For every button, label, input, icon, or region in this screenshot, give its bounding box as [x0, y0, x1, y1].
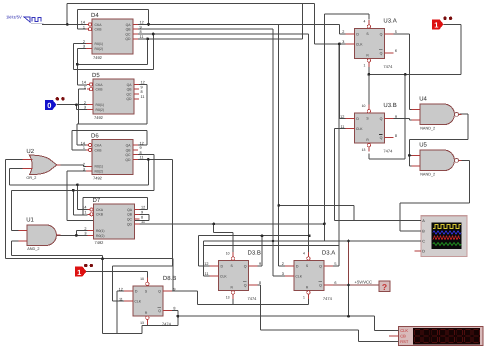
wire U2 output to D6 R0(1) — [60, 164, 83, 166]
flip-flop U3.B (7474) body — [340, 102, 397, 154]
junction VCC wire node — [347, 284, 350, 287]
svg-text:Q: Q — [380, 136, 383, 140]
svg-text:QA: QA — [126, 144, 132, 148]
svg-text:4: 4 — [364, 20, 366, 24]
svg-text:12: 12 — [340, 115, 344, 119]
svg-text:3: 3 — [83, 45, 85, 49]
svg-text:D: D — [135, 290, 138, 294]
junction U1 output branch — [75, 234, 78, 237]
svg-text:U3.B: U3.B — [383, 102, 396, 109]
wire into QB D7 — [137, 213, 149, 215]
svg-text:12: 12 — [140, 21, 144, 25]
wire set/reset rail — [369, 73, 461, 75]
wire QD D6 out — [137, 158, 172, 160]
svg-text:14: 14 — [82, 81, 86, 85]
svg-text:Q: Q — [380, 52, 383, 56]
svg-text:Q: Q — [380, 117, 383, 121]
svg-text:1: 1 — [77, 268, 81, 277]
wire D3.A R to reset run — [307, 299, 309, 305]
svg-text:6: 6 — [334, 281, 336, 285]
wire U3.B Q to U4 input B — [384, 118, 409, 120]
wire probe 0 to D5 R0 pins — [57, 104, 87, 106]
svg-text:CLK: CLK — [220, 274, 227, 278]
wire probe 1 top feed — [444, 23, 461, 25]
svg-text:CLK: CLK — [356, 42, 363, 46]
svg-text:Q: Q — [244, 284, 247, 288]
junction bottom rail VCC branch — [347, 315, 350, 318]
svg-text:D3.B: D3.B — [248, 250, 261, 257]
svg-text:QB: QB — [127, 213, 133, 217]
svg-text:3: 3 — [84, 106, 86, 110]
NAND gate U4 — [412, 96, 462, 131]
svg-text:11: 11 — [205, 272, 209, 276]
svg-text:QA: QA — [126, 23, 132, 27]
svg-text:R0(2): R0(2) — [96, 108, 104, 112]
svg-text:Q: Q — [319, 264, 322, 268]
wire QD D7 run — [137, 223, 325, 225]
svg-text:QA: QA — [127, 83, 133, 87]
svg-text:1: 1 — [84, 211, 86, 215]
wire VCC branch from Qbar rail — [348, 241, 350, 285]
svg-text:14: 14 — [81, 141, 85, 145]
svg-text:14: 14 — [82, 206, 86, 210]
wire into D8.B CLK — [112, 300, 124, 302]
svg-text:Q: Q — [158, 290, 161, 294]
wire QC D6 drop — [153, 155, 155, 191]
wire QA D4 drop to U3.A D — [339, 24, 341, 34]
svg-text:QB: QB — [126, 28, 132, 32]
svg-text:11: 11 — [140, 156, 144, 160]
svg-text:7492: 7492 — [93, 55, 103, 60]
wire into U3.A CLK — [314, 43, 345, 45]
svg-text:CKA: CKA — [96, 83, 104, 87]
wire top clock rail — [67, 2, 314, 4]
wire rail down to U3.B S — [368, 74, 370, 107]
svg-text:8: 8 — [140, 151, 142, 155]
junction U5 tied inputs — [408, 154, 411, 157]
svg-text:7474: 7474 — [162, 321, 172, 326]
VCC box — [379, 281, 390, 292]
flip-flop D8.B (7474) body — [119, 275, 177, 327]
wire U3.B R loop — [368, 154, 370, 159]
svg-text:9: 9 — [140, 25, 142, 29]
svg-text:NAND_2: NAND_2 — [420, 126, 435, 130]
svg-text:QB: QB — [127, 88, 133, 92]
svg-text:QC: QC — [125, 32, 131, 36]
wire U5 output to scope B — [460, 160, 470, 162]
wire QA D4 loop riser — [148, 9, 150, 24]
svg-text:?: ? — [382, 282, 387, 292]
svg-text:Q: Q — [158, 309, 161, 313]
wire net line y236 — [199, 235, 310, 237]
svg-text:CKB: CKB — [95, 148, 103, 152]
svg-text:CKB: CKB — [96, 213, 104, 217]
wire long run to U1 top input — [12, 189, 155, 191]
svg-text:D4: D4 — [91, 12, 99, 19]
svg-text:QC: QC — [127, 218, 133, 222]
counter D6 (7492) body — [81, 133, 144, 181]
wire into D3.A D — [279, 265, 285, 267]
svg-text:CLK: CLK — [400, 328, 408, 333]
svg-text:+5V/VCC: +5V/VCC — [355, 279, 373, 284]
wire R0(1) D4 stub link — [73, 43, 86, 45]
wire QA D4 drop to D3.A D input — [278, 24, 280, 266]
svg-text:R0(1): R0(1) — [95, 165, 103, 169]
NAND gate U5 — [412, 142, 462, 177]
svg-text:R0(2): R0(2) — [95, 170, 103, 174]
svg-text:3: 3 — [342, 40, 344, 44]
junction QD D7 to S-net vertical — [323, 223, 326, 226]
wire D7 CKB riser — [73, 214, 87, 216]
wire into D5 CKA — [77, 84, 87, 86]
svg-text:A: A — [422, 219, 425, 223]
svg-text:7492: 7492 — [95, 240, 105, 245]
wire Q D3.A to D3.B CLK link line — [204, 245, 340, 247]
wire QA D5 loop across — [77, 123, 147, 125]
wire QA D6 out — [137, 144, 147, 146]
svg-text:2: 2 — [282, 262, 284, 266]
svg-text:0: 0 — [47, 101, 51, 110]
svg-text:1: 1 — [303, 296, 305, 300]
junction D3.B Q riser — [261, 234, 264, 237]
wire U3.A S preset loop — [368, 14, 370, 19]
wire into CKB D4 — [78, 28, 87, 30]
svg-text:8: 8 — [141, 90, 143, 94]
junction clock node — [66, 23, 69, 26]
wire drop to D6 CKB — [71, 131, 73, 150]
counter D7 (7492) body — [82, 197, 145, 245]
svg-text:4: 4 — [303, 252, 305, 256]
wire QC D4 run — [138, 33, 309, 35]
junction scope C node — [347, 240, 350, 243]
svg-text:7492: 7492 — [94, 115, 104, 120]
junction QD D4 — [146, 37, 149, 40]
junction QA D4 loop — [147, 23, 150, 26]
wire QA D5 out — [138, 83, 147, 85]
svg-text:CKB: CKB — [96, 88, 104, 92]
wire QA D7 loop — [137, 209, 148, 211]
svg-text:D: D — [356, 117, 359, 121]
svg-text:D: D — [356, 32, 359, 36]
svg-text:9: 9 — [395, 115, 397, 119]
svg-text:9: 9 — [141, 85, 143, 89]
svg-text:9: 9 — [140, 146, 142, 150]
svg-text:11: 11 — [340, 125, 344, 129]
svg-text:U1: U1 — [26, 216, 34, 223]
wire QA loop drop to CKB D4 — [77, 9, 79, 29]
svg-text:D7: D7 — [93, 197, 101, 204]
wire drop to D3.B D input — [198, 236, 200, 266]
wire QC D4 feedback drop — [152, 34, 154, 69]
wire scope A branch — [279, 204, 354, 206]
svg-text:CLK: CLK — [356, 127, 363, 131]
svg-text:10: 10 — [362, 104, 366, 108]
display U6 logic indicator — [389, 327, 483, 346]
AND gate U1 — [19, 216, 61, 251]
svg-text:1: 1 — [434, 21, 438, 30]
svg-text:11: 11 — [141, 95, 145, 99]
wire U4 output loop to U5 inputs — [460, 113, 469, 115]
wire scope A drop — [353, 205, 355, 220]
wire QB D4 run — [138, 28, 274, 30]
svg-text:3: 3 — [84, 232, 86, 236]
svg-text:CLK: CLK — [134, 300, 141, 304]
svg-text:R0(1): R0(1) — [96, 229, 104, 233]
svg-text:NAND_2: NAND_2 — [420, 172, 435, 176]
wire D8.B Qbar riser — [177, 310, 179, 325]
svg-text:11: 11 — [119, 297, 123, 301]
svg-text:QD: QD — [125, 37, 131, 41]
svg-text:Q: Q — [380, 32, 383, 36]
svg-text:12: 12 — [204, 262, 208, 266]
svg-text:13: 13 — [362, 148, 366, 152]
wire D8.B R stub link — [146, 322, 148, 326]
svg-text:D5: D5 — [92, 72, 100, 79]
svg-text:2: 2 — [84, 227, 86, 231]
wire QD D6 branch drop — [147, 159, 149, 184]
svg-text:2: 2 — [83, 40, 85, 44]
svg-text:CKA: CKA — [96, 208, 104, 212]
wire QA loop top — [78, 8, 149, 10]
wire to D8.B Q — [196, 291, 198, 304]
wire U1 bottom input run — [12, 254, 103, 256]
wire D3.B Q riser to S/QC line — [249, 265, 263, 267]
wire U1 output to D7 R0 pins — [57, 234, 88, 236]
junction S D3.B jog — [212, 223, 215, 226]
wire D3.B Qbar to display RST — [249, 284, 261, 286]
wire branch to D7 CKA — [76, 185, 78, 210]
svg-text:U3.A: U3.A — [383, 18, 396, 25]
wire drop to D8.B feedback loop — [102, 255, 104, 333]
svg-text:D: D — [422, 249, 425, 253]
svg-text:CKA: CKA — [95, 23, 103, 27]
wire scope A into channel — [354, 219, 421, 221]
svg-text:R0(1): R0(1) — [96, 103, 104, 107]
wire scope C feed — [349, 240, 422, 242]
svg-text:12: 12 — [141, 206, 145, 210]
wire riser to D3.B R — [232, 296, 234, 305]
wire clock output to D4 CKA — [42, 23, 86, 25]
junction probe 0 node — [75, 103, 78, 106]
clock source V1 1kHz/5V — [6, 15, 44, 24]
svg-text:CKB: CKB — [95, 28, 103, 32]
svg-text:U5: U5 — [419, 142, 427, 149]
wire QA D5 loop down — [146, 84, 148, 123]
wire clock net drop to U3.B D — [338, 44, 340, 119]
wire U3.A Q to U4 input A — [384, 33, 409, 35]
svg-text:Q: Q — [319, 284, 322, 288]
junction scope A tap — [277, 204, 280, 207]
svg-text:CB: CB — [400, 334, 406, 339]
svg-text:7474: 7474 — [248, 296, 258, 301]
svg-text:QC: QC — [126, 92, 132, 96]
svg-text:2: 2 — [84, 101, 86, 105]
wire QD D4 riser to top rail — [301, 3, 303, 38]
svg-text:11: 11 — [140, 35, 144, 39]
wire drop to D3.B CLK — [203, 241, 205, 276]
svg-text:10: 10 — [140, 277, 144, 281]
indicator probe 0 — [45, 97, 65, 110]
svg-text:B: B — [422, 229, 425, 233]
svg-text:U2: U2 — [26, 148, 34, 155]
wire drop to D6 CKA — [76, 124, 78, 145]
junction Qbar D8.B loop — [101, 257, 104, 260]
svg-text:Q: Q — [244, 264, 247, 268]
junction D7 CKB riser — [72, 189, 75, 192]
junction set/reset rail to U3.B R — [404, 73, 407, 76]
svg-text:2: 2 — [83, 163, 85, 167]
svg-text:9: 9 — [173, 287, 175, 291]
svg-text:D: D — [296, 264, 299, 268]
svg-text:10: 10 — [226, 252, 230, 256]
svg-text:9: 9 — [141, 211, 143, 215]
counter D5 (7492) body — [82, 72, 145, 120]
wire top rail drop to U3.A CLK — [313, 3, 315, 44]
svg-text:3: 3 — [282, 272, 284, 276]
junction S D3.A node — [308, 234, 311, 237]
svg-text:D: D — [221, 264, 224, 268]
wire QC D6 out — [137, 154, 154, 156]
wire probe 1 to D8.B S — [86, 271, 147, 273]
wire QD D4 run — [138, 38, 303, 40]
wire QA D6 loop up — [146, 131, 148, 146]
wire D8.B Q riser — [172, 259, 174, 292]
svg-text:AND_2: AND_2 — [27, 247, 39, 251]
svg-text:D6: D6 — [91, 133, 99, 140]
svg-text:D3.A: D3.A — [322, 250, 335, 257]
wire QD D6 drop to D8.B CLK loop — [171, 159, 173, 266]
svg-text:7474: 7474 — [323, 296, 333, 301]
wire D3.A Q riser to U3 clock net — [333, 265, 339, 267]
svg-text:3: 3 — [83, 167, 85, 171]
svg-text:5: 5 — [334, 262, 336, 266]
svg-text:QC: QC — [125, 153, 131, 157]
svg-text:5: 5 — [395, 30, 397, 34]
junction QD D6 — [147, 158, 150, 161]
wire long run to U2 top input — [6, 258, 173, 260]
svg-text:QB: QB — [126, 148, 132, 152]
junction bottom rail tap — [176, 315, 179, 318]
svg-text:CKA: CKA — [95, 144, 103, 148]
wire run to U2 bottom input — [9, 184, 148, 186]
svg-text:7474: 7474 — [383, 149, 393, 154]
wire QD feedback horizontal — [77, 63, 147, 65]
svg-text:12: 12 — [141, 81, 145, 85]
svg-text:1: 1 — [83, 146, 85, 150]
junction D7 CKA branch — [76, 183, 79, 186]
svg-text:QD: QD — [125, 158, 131, 162]
wire QA D6 loop across — [72, 130, 147, 132]
wire bottom rail to display CLK — [178, 315, 349, 317]
junction QB D4 crossing — [272, 240, 275, 243]
svg-text:D8.B: D8.B — [163, 275, 176, 282]
wire U3.A R to shared set/reset rail — [368, 65, 370, 75]
svg-text:7474: 7474 — [383, 64, 393, 69]
svg-text:QD: QD — [126, 97, 132, 101]
flip-flop U3.A (7474) body — [342, 18, 397, 70]
wire R0(2) D4 vertical to D5 CKA — [76, 48, 78, 85]
flip-flop D3.B (7474) body — [204, 250, 261, 302]
wire vertical to VCC node — [348, 241, 350, 316]
svg-text:R0(2): R0(2) — [95, 47, 103, 51]
svg-text:R0(2): R0(2) — [96, 234, 104, 238]
svg-text:8: 8 — [395, 134, 397, 138]
svg-text:6: 6 — [395, 49, 397, 53]
wire into D3.A CLK — [273, 275, 285, 277]
svg-text:12: 12 — [119, 287, 123, 291]
wire loop under D8.B — [141, 326, 143, 334]
svg-text:8: 8 — [259, 281, 261, 285]
junction U3.A R rail — [368, 73, 371, 76]
counter D4 (7492) body — [81, 12, 144, 60]
flip-flop D3.A (7474) body — [282, 250, 337, 302]
junction QD feedback / D5 CKA — [76, 63, 79, 66]
display pin stubs — [395, 329, 399, 331]
svg-text:2: 2 — [342, 30, 344, 34]
svg-text:12: 12 — [140, 141, 144, 145]
svg-text:OR_2: OR_2 — [26, 176, 36, 180]
svg-text:U4: U4 — [419, 96, 427, 103]
wire R0(1) D4 feedback horizontal — [73, 68, 153, 70]
svg-text:1: 1 — [83, 25, 85, 29]
svg-text:8: 8 — [173, 307, 175, 311]
svg-text:1kHz/5V: 1kHz/5V — [6, 15, 22, 20]
wire jog to S D3.B — [213, 224, 215, 232]
svg-text:8: 8 — [140, 30, 142, 34]
svg-text:RST: RST — [400, 339, 409, 344]
svg-text:QD: QD — [127, 222, 133, 226]
wire clock junction up — [66, 3, 68, 24]
svg-text:11: 11 — [141, 220, 145, 224]
svg-text:9: 9 — [259, 262, 261, 266]
wire R0(1) D4 feedback vertical — [72, 44, 74, 70]
wire D3.A Qbar to VCC box — [333, 284, 379, 286]
indicator probe 1 — [432, 17, 452, 30]
OR gate U2 — [22, 148, 60, 180]
svg-text:1: 1 — [364, 64, 366, 68]
svg-text:1: 1 — [84, 85, 86, 89]
svg-text:13: 13 — [226, 296, 230, 300]
wire D6 R0(2) loop — [67, 170, 86, 172]
svg-text:QA: QA — [127, 208, 133, 212]
svg-text:8: 8 — [141, 215, 143, 219]
junction U3 clock node — [338, 43, 341, 46]
wire QB D4 long drop to D3.A CLK — [272, 29, 274, 276]
svg-text:14: 14 — [81, 21, 85, 25]
svg-text:R0(1): R0(1) — [95, 42, 103, 46]
svg-text:CLK: CLK — [295, 274, 302, 278]
wire QD D4 feedback drop — [147, 39, 149, 65]
wire QA D4 output run — [138, 23, 340, 25]
svg-text:C: C — [422, 240, 425, 244]
wire D5 CKB riser — [77, 89, 79, 124]
wire U3.B CLK down path to scope A line — [334, 128, 345, 130]
svg-text:7492: 7492 — [93, 176, 103, 181]
wire net line y241 — [204, 240, 349, 242]
svg-text:13: 13 — [140, 321, 144, 325]
wire D8.B D feedback — [117, 290, 124, 292]
oscilloscope XSC1 — [414, 216, 467, 257]
indicator probe 1 — [75, 264, 93, 277]
junction QC D4 — [152, 33, 155, 36]
wire QC D4 long drop to S D3.A — [308, 34, 310, 253]
